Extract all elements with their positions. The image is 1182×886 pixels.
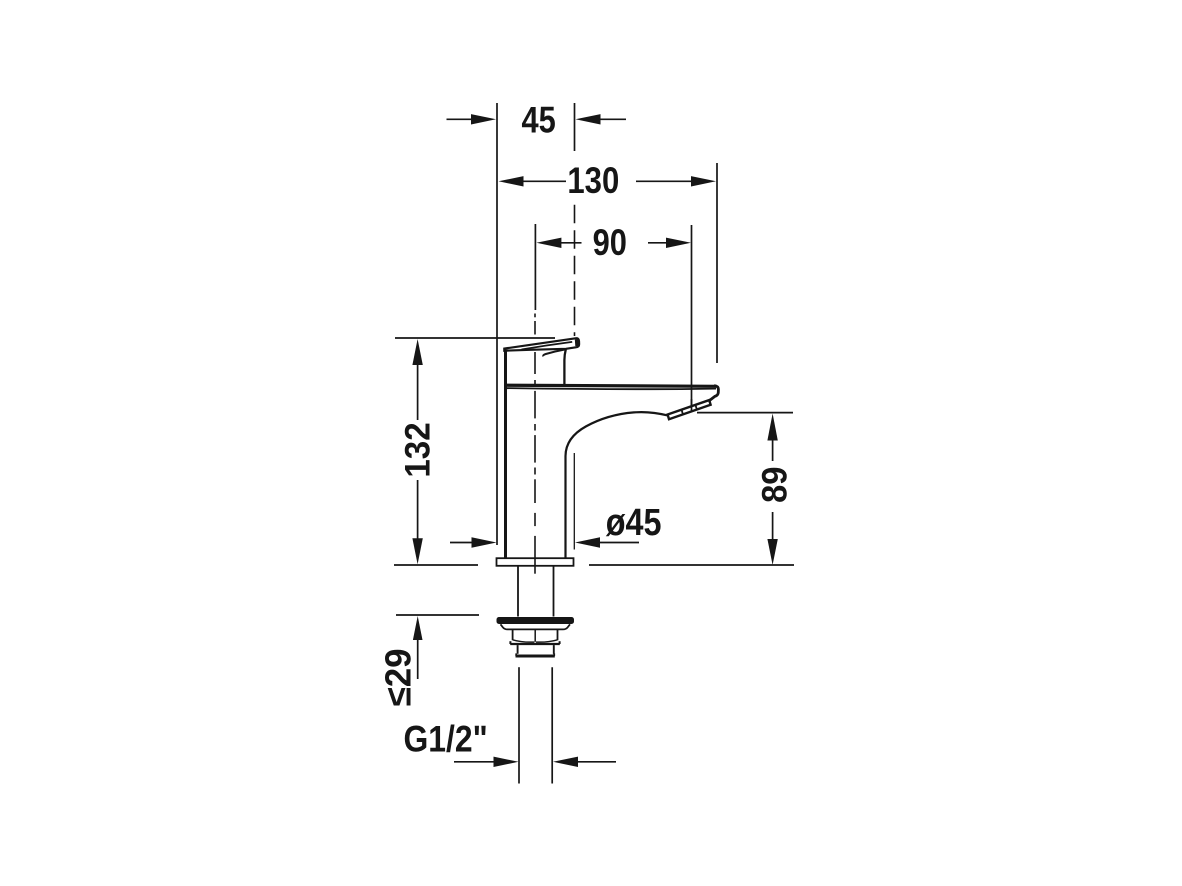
arrowhead max29 (points up) <box>413 616 423 640</box>
svg-text:≤29: ≤29 <box>378 648 419 706</box>
arrowhead dia45 right (points left) <box>575 537 600 547</box>
base flange <box>497 558 574 566</box>
hex nut right side <box>557 629 559 640</box>
arrowhead 132 bottom (points down) <box>412 538 422 564</box>
lever top inner line <box>522 342 573 350</box>
collar bottom thick edge <box>516 655 555 658</box>
arrowhead 89 bottom (points down) <box>767 539 777 565</box>
mounting surface line right segment <box>589 564 794 566</box>
extension line left of 90 dim (solid) <box>534 224 536 310</box>
svg-text:132: 132 <box>398 422 437 477</box>
extension line left (shared by 45 and 130 dims) <box>496 103 498 545</box>
arrowhead 45 right (points left) <box>576 114 601 124</box>
dimension 130 line left <box>522 180 566 182</box>
dashed continuation of 45 right extension down to lever tip <box>574 205 576 336</box>
svg-text:90: 90 <box>593 222 627 263</box>
neck right edge <box>564 349 565 384</box>
dimension 89 upper stem <box>772 439 774 461</box>
dimension 89 lower stem <box>772 512 774 541</box>
lever blade outline <box>504 338 579 350</box>
aerator divider 2 <box>695 405 696 410</box>
svg-text:ø45: ø45 <box>606 500 662 543</box>
dimension 45 line right <box>598 118 626 120</box>
hex nut bottom corner right <box>559 641 561 644</box>
dimension dia45 line left <box>450 542 473 544</box>
svg-text:45: 45 <box>521 100 555 141</box>
dimension dia45 line right <box>598 542 639 544</box>
center axis long dash <box>534 479 536 503</box>
center axis medium dash <box>534 513 536 526</box>
mounting surface line left segment <box>394 564 478 566</box>
lever tip solid fill <box>575 339 579 346</box>
aerator (tilted outlet with segments) <box>668 400 711 419</box>
arrowhead 130 left (points left) <box>499 176 524 186</box>
collar lip left step <box>515 653 517 656</box>
dimension 90 line right <box>648 242 668 244</box>
body left edge <box>504 350 507 559</box>
center axis short dash at band <box>534 380 536 386</box>
arrowhead G1/2 right (points left) <box>553 757 578 767</box>
center axis long dash <box>534 435 536 463</box>
collar lip right step <box>553 653 555 656</box>
arrowhead 90 right (points right) <box>666 238 691 248</box>
dimension G1/2 line left <box>454 761 495 763</box>
spout underside curve into body right edge <box>566 412 669 558</box>
hex nut left side <box>512 629 514 640</box>
extension line right of 45 dim (solid top part) <box>574 103 576 151</box>
hex nut right facet arc <box>536 640 558 642</box>
arrowhead G1/2 left (points right) <box>494 757 519 767</box>
svg-text:G1/2": G1/2" <box>404 718 488 760</box>
aerator divider 1 <box>682 410 683 415</box>
extension line right of 130 dim <box>716 163 718 363</box>
extension line top of 89 dim (spout outlet level) <box>697 412 793 414</box>
center axis long dash crossing flange <box>534 536 536 574</box>
hex nut center facet line <box>534 629 536 641</box>
collar left line <box>517 645 519 654</box>
spout top band (filled wedge) <box>504 385 716 386</box>
arrowhead 132 top (points up) <box>412 339 422 365</box>
spout top band lower edge <box>504 388 716 389</box>
lever underside arc <box>543 349 565 356</box>
dimension max29 stem <box>417 639 419 679</box>
svg-text:89: 89 <box>755 467 795 503</box>
dimension 90 line left <box>560 242 582 244</box>
90 extension line crossing aerator <box>691 399 693 412</box>
dimension 45 line left <box>447 118 475 120</box>
threaded pipe left line <box>518 667 520 783</box>
arrowhead 90 left (points left) <box>536 238 561 248</box>
dia45 right thin extension line <box>573 453 575 550</box>
threaded pipe right line <box>551 667 553 783</box>
spout tip block and front edge down to aerator <box>710 386 719 401</box>
arrowhead 89 top (points up) <box>767 414 777 441</box>
hex nut bottom corner left <box>509 641 511 644</box>
dashed center axis line of body <box>534 321 536 335</box>
collar right line <box>553 645 555 654</box>
center axis short dash <box>534 468 536 475</box>
dimension 130 line right <box>636 180 693 182</box>
dimension 132 line upper stem <box>417 362 419 420</box>
shank left line <box>517 567 519 617</box>
arrowhead 45 left (points right) <box>471 114 496 124</box>
ring below washer <box>501 624 571 629</box>
washer (filled) <box>497 617 575 624</box>
hex nut left facet arc <box>513 640 535 642</box>
center axis dash above lever <box>534 314 536 318</box>
hex nut bottom thick line <box>510 643 560 645</box>
arrowhead dia45 left (points right) <box>472 537 497 547</box>
extension line top of 132 dim <box>395 337 555 339</box>
center axis short dash <box>534 424 536 431</box>
center axis long dash <box>534 391 536 419</box>
svg-text:130: 130 <box>567 161 619 202</box>
dimension 132 line lower stem <box>417 480 419 541</box>
dimension G1/2 line right <box>577 761 616 763</box>
extension line right of 90 dim <box>691 225 693 412</box>
center axis dash below lever <box>534 352 536 374</box>
extension line top of max-29 dim <box>396 614 479 616</box>
arrowhead 130 right (points right) <box>691 176 716 186</box>
shank right line <box>553 567 555 617</box>
